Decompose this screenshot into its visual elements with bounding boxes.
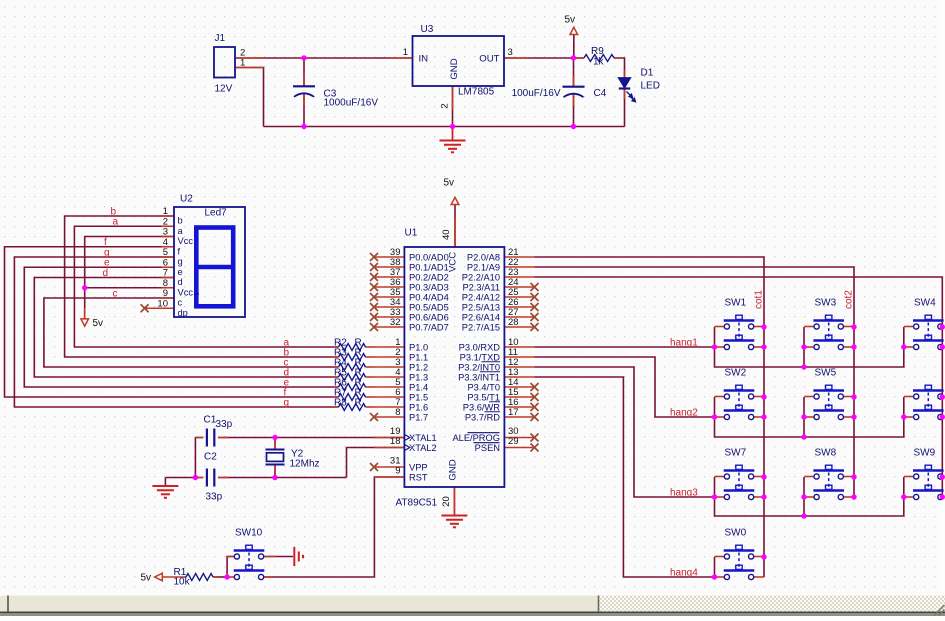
svg-text:hang2: hang2 [670, 407, 698, 418]
svg-text:33p: 33p [206, 492, 223, 503]
wire net b (U2 pin1 wrap to resistor row) [65, 216, 339, 357]
wire 5v arrow to OUT rail [573, 35, 575, 59]
svg-text:10: 10 [157, 298, 168, 309]
svg-text:dp: dp [178, 308, 188, 318]
svg-text:P1.0: P1.0 [409, 342, 428, 352]
svg-text:e: e [178, 267, 183, 277]
svg-text:12Mhz: 12Mhz [290, 459, 320, 470]
svg-text:SW1: SW1 [725, 298, 747, 309]
wire SW10 upper-left jumper [227, 557, 234, 578]
svg-text:GND: GND [449, 58, 460, 79]
svg-text:VCC: VCC [447, 252, 458, 272]
capacitor C4 [563, 86, 585, 88]
svg-text:g: g [178, 257, 183, 267]
wire net hang3 (U1 pin12) [534, 367, 714, 497]
svg-text:1k: 1k [593, 57, 605, 68]
svg-text:C2: C2 [204, 452, 217, 463]
svg-text:40: 40 [441, 229, 452, 240]
wire U1 pin20 to ground [453, 487, 455, 515]
svg-text:c: c [178, 298, 183, 308]
svg-text:P1.6: P1.6 [409, 402, 428, 412]
svg-text:5v: 5v [93, 318, 104, 329]
svg-text:P3.4/T0: P3.4/T0 [467, 382, 500, 392]
capacitor C2 [206, 469, 208, 487]
svg-text:hang3: hang3 [670, 487, 698, 498]
svg-text:P2.4/A12: P2.4/A12 [462, 292, 500, 302]
svg-text:17: 17 [508, 407, 519, 418]
wire hang3 row distribution [715, 477, 904, 516]
resistor R1 [186, 574, 213, 581]
svg-text:g: g [284, 398, 290, 409]
MCU U1 AT89C51 [404, 247, 504, 487]
wire J1 pin2 to U3 IN (12V rail) [235, 57, 413, 59]
SW10 pin stubs [227, 556, 234, 558]
wire J1 pin1 down to ground rail [235, 68, 264, 127]
wire hang4 SW0 jumper [714, 557, 716, 577]
svg-text:3: 3 [508, 47, 513, 58]
wire U3 OUT to 5v node and R9 [504, 57, 584, 59]
wire net c (U2 pin9 wrap) [44, 298, 339, 367]
wire C4 stubs [573, 58, 575, 127]
svg-text:f: f [178, 246, 181, 256]
capacitor C3 [293, 85, 315, 87]
wire ground rail (bottom of power section) [264, 126, 625, 128]
svg-text:cot1: cot1 [754, 290, 765, 309]
svg-text:20: 20 [441, 496, 452, 507]
svg-text:P0.2/AD2: P0.2/AD2 [409, 272, 449, 282]
svg-text:8: 8 [395, 407, 400, 418]
svg-text:SW4: SW4 [914, 298, 936, 309]
svg-text:SW8: SW8 [815, 448, 837, 459]
svg-text:SW0: SW0 [725, 528, 747, 539]
svg-text:b: b [178, 216, 183, 226]
svg-text:P3.2/INT0: P3.2/INT0 [458, 362, 500, 372]
wire net f (U2 pin4 wrap) [5, 247, 339, 397]
svg-text:P0.3/AD3: P0.3/AD3 [409, 282, 449, 292]
svg-text:RST: RST [409, 472, 428, 482]
svg-text:P1.2: P1.2 [409, 362, 428, 372]
wire R9 to D1 and D1 to ground rail [614, 58, 625, 127]
svg-text:P2.5/A13: P2.5/A13 [462, 302, 500, 312]
svg-text:5v: 5v [141, 573, 152, 584]
svg-text:P2.7/A15: P2.7/A15 [462, 322, 500, 332]
svg-text:P0.7/AD7: P0.7/AD7 [409, 322, 449, 332]
U1 right pin stubs [504, 256, 534, 258]
svg-text:P1.4: P1.4 [409, 382, 428, 392]
wire ground stub left [164, 478, 166, 486]
svg-text:VPP: VPP [409, 462, 428, 472]
svg-text:33p: 33p [216, 419, 233, 430]
svg-text:SW7: SW7 [725, 448, 747, 459]
svg-text:D1: D1 [641, 67, 654, 78]
svg-text:R9: R9 [591, 46, 604, 57]
U2 Vcc 5v stub [84, 308, 86, 319]
svg-text:P3.5/T1: P3.5/T1 [467, 392, 500, 402]
Y2 pin stubs [274, 443, 276, 450]
wire RST to SW10 [264, 477, 404, 577]
right canvas edge strip [941, 0, 945, 595]
C2 pin stubs [193, 477, 203, 479]
svg-text:U1: U1 [405, 228, 418, 239]
resistors R2-R8 [339, 344, 366, 351]
svg-text:P2.1/A9: P2.1/A9 [467, 262, 500, 272]
diode D1 LED [618, 78, 631, 88]
U3 pin1 stub [390, 57, 413, 59]
svg-text:SW9: SW9 [914, 448, 936, 459]
wire net a (U2 pin2 wrap) [74, 226, 338, 347]
svg-text:P0.0/AD0: P0.0/AD0 [409, 252, 449, 262]
svg-text:P2.6/A14: P2.6/A14 [462, 312, 500, 322]
svg-text:hang4: hang4 [670, 567, 698, 578]
svg-text:9: 9 [395, 466, 400, 477]
connector J1 [214, 47, 235, 78]
svg-text:LM7805: LM7805 [458, 87, 495, 98]
wire C1 row to XTAL1 [195, 437, 404, 439]
wire net cot3 (U1 pin23) [534, 277, 942, 497]
U1 left pin stubs [374, 256, 404, 258]
wire hang2 row distribution [715, 397, 904, 437]
wire net e (U2 pin6 wrap) [24, 267, 338, 387]
svg-text:100uF/16V: 100uF/16V [512, 88, 561, 99]
wire net g (U2 pin5 wrap) [14, 257, 338, 407]
wire net hang2 (U1 pin11) [534, 357, 714, 417]
svg-text:P3.0/RXD: P3.0/RXD [459, 342, 501, 352]
wire U3 GND pin to ground rail [452, 86, 454, 127]
wire net hang4 (U1 pin13) [534, 377, 714, 577]
resistor R9 [584, 55, 614, 62]
U1 XTAL clock marks [405, 435, 410, 450]
svg-text:XTAL1: XTAL1 [409, 433, 437, 443]
wire U1 pin40 from 5v [454, 205, 456, 248]
svg-text:cot2: cot2 [844, 290, 855, 309]
wire XTAL2 riser [347, 448, 405, 478]
C3 pin stubs [303, 74, 305, 86]
wire R1 to SW10 junction [213, 576, 227, 578]
wire net hang1 (U1 pin10) [534, 346, 714, 348]
svg-text:Vcc: Vcc [178, 236, 194, 246]
R2-R8 pin stubs [333, 346, 339, 348]
svg-text:Vcc: Vcc [178, 287, 194, 297]
ground symbol below C2 [152, 486, 178, 498]
svg-text:hang1: hang1 [670, 337, 698, 348]
resize grip [934, 605, 945, 616]
switch SW6 (unlabeled) [925, 385, 931, 389]
svg-text:29: 29 [508, 436, 519, 447]
svg-text:LED: LED [641, 80, 660, 91]
svg-text:d: d [103, 268, 109, 279]
svg-text:ALE/PROG: ALE/PROG [452, 433, 500, 443]
svg-text:1000uF/16V: 1000uF/16V [324, 98, 379, 109]
U1 pin20 stub [453, 487, 455, 515]
wire net Vcc (U2 pin3 / pin8 to 5v) [85, 237, 174, 319]
U1 ALE/PROG and PSEN overlines [468, 432, 500, 434]
svg-text:5v: 5v [565, 15, 576, 26]
svg-text:P2.0/A8: P2.0/A8 [467, 252, 500, 262]
svg-text:P1.5: P1.5 [409, 392, 428, 402]
wire Y2 stubs [274, 438, 276, 478]
no-connect X mark U2 dp [141, 304, 149, 312]
no-connect X marks U1 left (P0.0-P0.7, P1.7, VPP) [370, 253, 378, 261]
ground symbol under U3 [452, 127, 454, 141]
D1 pin stubs [624, 70, 626, 78]
wire net d (U2 pin7 wrap) [34, 278, 338, 378]
svg-text:SW3: SW3 [815, 298, 837, 309]
svg-text:28: 28 [508, 317, 519, 328]
U3 pin2 stub [452, 86, 454, 110]
svg-text:SW5: SW5 [815, 368, 837, 379]
svg-text:P2.2/A10: P2.2/A10 [462, 272, 500, 282]
C1 pin stubs [197, 437, 203, 439]
display U2 Led7 [174, 207, 245, 317]
J1 pins 1,2 [235, 57, 264, 59]
svg-text:C4: C4 [594, 88, 607, 99]
svg-text:d: d [178, 277, 183, 287]
wire hang1 row distribution [715, 327, 904, 367]
svg-text:12V: 12V [215, 84, 233, 95]
svg-text:P0.4/AD4: P0.4/AD4 [409, 292, 449, 302]
svg-text:P2.3/A11: P2.3/A11 [462, 282, 500, 292]
svg-text:AT89C51: AT89C51 [396, 498, 438, 509]
svg-text:SW10: SW10 [235, 528, 263, 539]
svg-text:P0.1/AD1: P0.1/AD1 [409, 262, 449, 272]
svg-text:GND: GND [448, 459, 459, 480]
wire C3 vertical stubs [303, 58, 305, 127]
svg-text:c: c [113, 288, 118, 299]
ground symbol under U1 pin20 [441, 516, 467, 528]
earth ground at SW10 [294, 547, 303, 566]
svg-text:a: a [113, 217, 119, 228]
svg-text:J1: J1 [215, 33, 226, 44]
svg-text:10k: 10k [174, 577, 191, 588]
junction dots [301, 55, 306, 60]
matrix switch pin stubs [715, 326, 725, 328]
R1 pin stubs [162, 576, 186, 578]
wire C1 left leg down [194, 438, 196, 478]
svg-text:R: R [355, 398, 362, 409]
svg-text:SW2: SW2 [725, 368, 747, 379]
svg-text:OUT: OUT [479, 54, 499, 65]
svg-text:18: 18 [390, 436, 401, 447]
wire net cot1 (U1 pin21) [534, 257, 764, 577]
svg-text:2: 2 [440, 103, 451, 108]
svg-text:P3.1/TXD: P3.1/TXD [460, 352, 501, 362]
svg-text:XTAL2: XTAL2 [409, 443, 437, 453]
U3 pin3 stub [504, 57, 528, 59]
svg-text:32: 32 [390, 317, 401, 328]
svg-text:1: 1 [403, 47, 408, 58]
svg-text:R8: R8 [334, 398, 347, 409]
C4 pin stubs [573, 75, 575, 87]
svg-text:P0.6/AD6: P0.6/AD6 [409, 312, 449, 322]
svg-text:U2: U2 [180, 194, 193, 205]
svg-text:1: 1 [240, 58, 245, 69]
wire ground row C2 [165, 477, 346, 479]
svg-text:P3.6/WR: P3.6/WR [463, 402, 500, 412]
scrollbar thumb [9, 596, 599, 612]
R9 pin stubs [578, 57, 584, 59]
wire net cot2 (U1 pin22) [534, 267, 854, 497]
U2 7-segment digit [196, 228, 233, 307]
svg-text:IN: IN [419, 54, 429, 65]
svg-text:P3.3/INT1: P3.3/INT1 [458, 372, 500, 382]
no-connect X marks U1 right (P2.3-P2.7, P3.4-P3.7, ALE, PSEN) [531, 283, 539, 291]
wire SW10 upper-right to earth [264, 556, 293, 558]
svg-text:P1.7: P1.7 [409, 412, 428, 422]
U2 pin stubs [162, 215, 175, 217]
crystal Y2 [266, 449, 285, 451]
svg-text:PSEN: PSEN [475, 443, 500, 453]
svg-text:P1.1: P1.1 [409, 352, 428, 362]
U1 pin40 stub [454, 217, 456, 247]
svg-text:P0.5/AD5: P0.5/AD5 [409, 302, 449, 312]
svg-text:Led7: Led7 [205, 208, 228, 219]
bottom scrollbar [0, 595, 945, 612]
svg-text:P1.3: P1.3 [409, 372, 428, 382]
capacitor C1 [206, 429, 208, 447]
svg-text:P3.7/RD: P3.7/RD [465, 412, 500, 422]
svg-text:5v: 5v [444, 178, 455, 189]
svg-text:a: a [178, 226, 184, 236]
regulator U3 LM7805 [413, 36, 505, 86]
svg-text:U3: U3 [421, 24, 434, 35]
